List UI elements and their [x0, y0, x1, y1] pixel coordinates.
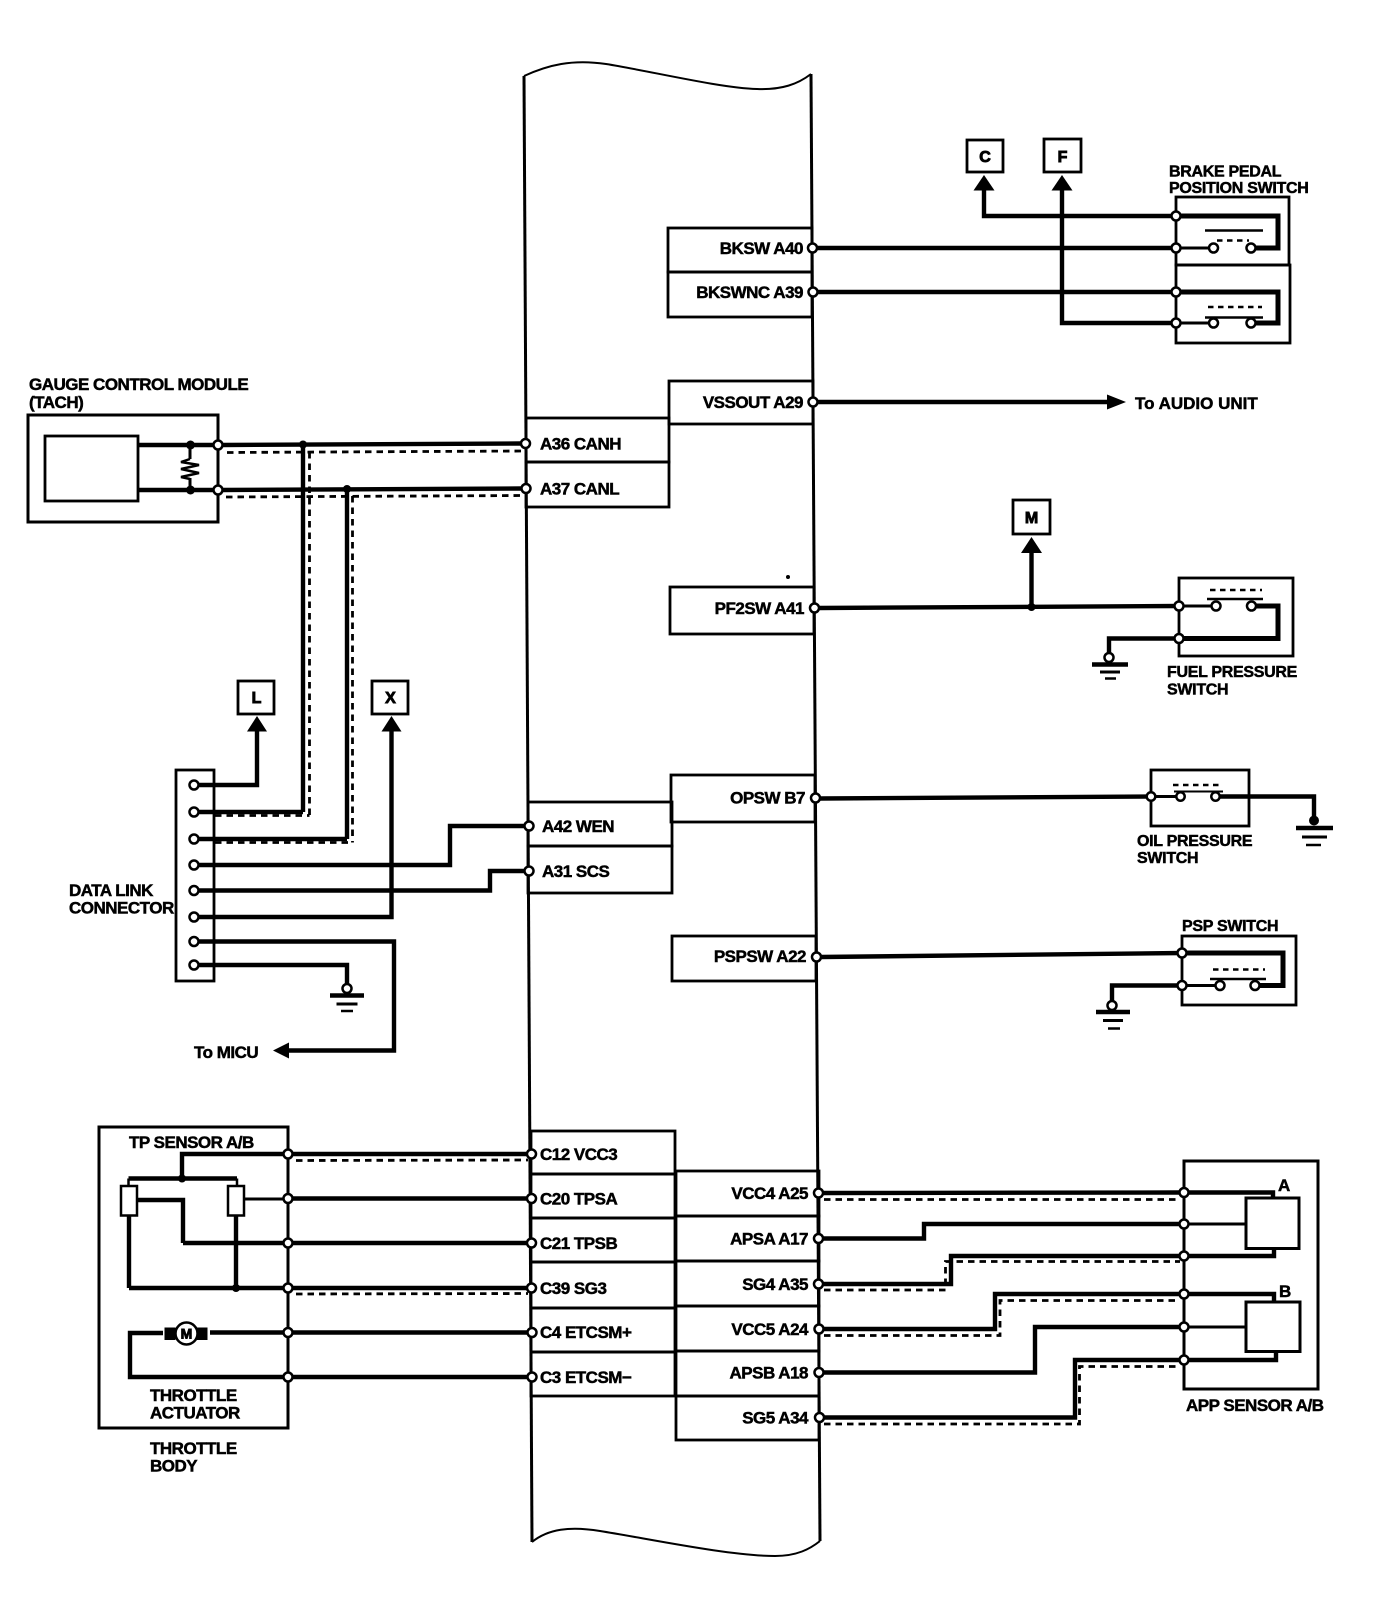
svg-text:BRAKE PEDAL: BRAKE PEDAL: [1169, 164, 1282, 181]
svg-text:DATA LINK: DATA LINK: [69, 881, 154, 900]
svg-text:PF2SW A41: PF2SW A41: [715, 599, 804, 618]
svg-text:SG4 A35: SG4 A35: [742, 1275, 808, 1294]
svg-text:C20 TPSA: C20 TPSA: [540, 1190, 617, 1209]
svg-text:APP SENSOR A/B: APP SENSOR A/B: [1186, 1396, 1324, 1415]
svg-text:VCC5 A24: VCC5 A24: [731, 1320, 809, 1339]
svg-text:L: L: [252, 690, 262, 707]
svg-text:BKSWNC A39: BKSWNC A39: [696, 283, 803, 302]
svg-text:C4 ETCSM+: C4 ETCSM+: [540, 1323, 632, 1342]
svg-text:POSITION SWITCH: POSITION SWITCH: [1169, 180, 1309, 197]
svg-text:(TACH): (TACH): [29, 393, 83, 412]
svg-text:VSSOUT A29: VSSOUT A29: [703, 393, 803, 412]
svg-text:SWITCH: SWITCH: [1137, 850, 1198, 867]
svg-text:X: X: [385, 690, 396, 707]
svg-text:BODY: BODY: [150, 1457, 198, 1476]
svg-text:VCC4 A25: VCC4 A25: [731, 1184, 808, 1203]
svg-text:GAUGE CONTROL MODULE: GAUGE CONTROL MODULE: [29, 375, 248, 394]
svg-text:THROTTLE: THROTTLE: [150, 1439, 237, 1458]
svg-text:C21 TPSB: C21 TPSB: [540, 1234, 617, 1253]
svg-text:A42 WEN: A42 WEN: [542, 817, 614, 836]
svg-text:M: M: [1025, 510, 1038, 527]
svg-text:B: B: [1279, 1282, 1291, 1301]
svg-text:SWITCH: SWITCH: [1167, 682, 1228, 699]
svg-text:FUEL PRESSURE: FUEL PRESSURE: [1167, 664, 1298, 681]
svg-text:C12 VCC3: C12 VCC3: [540, 1145, 617, 1164]
svg-text:M: M: [181, 1326, 193, 1342]
svg-text:SG5 A34: SG5 A34: [742, 1409, 809, 1428]
svg-text:A: A: [1278, 1176, 1290, 1195]
svg-text:CONNECTOR: CONNECTOR: [69, 899, 174, 918]
svg-text:APSA A17: APSA A17: [730, 1230, 808, 1249]
svg-text:F: F: [1058, 149, 1068, 166]
svg-text:To AUDIO UNIT: To AUDIO UNIT: [1135, 394, 1258, 413]
svg-text:C: C: [979, 149, 991, 166]
svg-text:To MICU: To MICU: [194, 1043, 258, 1062]
svg-text:C39 SG3: C39 SG3: [540, 1279, 606, 1298]
svg-text:TP SENSOR A/B: TP SENSOR A/B: [129, 1133, 254, 1152]
svg-text:A36 CANH: A36 CANH: [540, 435, 621, 454]
svg-text:THROTTLE: THROTTLE: [150, 1386, 237, 1405]
svg-text:OPSW B7: OPSW B7: [730, 789, 805, 808]
svg-text:ACTUATOR: ACTUATOR: [150, 1404, 240, 1423]
svg-text:BKSW A40: BKSW A40: [720, 239, 803, 258]
svg-text:A37 CANL: A37 CANL: [540, 480, 619, 499]
svg-text:PSPSW A22: PSPSW A22: [714, 947, 806, 966]
svg-text:OIL PRESSURE: OIL PRESSURE: [1137, 833, 1253, 850]
svg-text:C3 ETCSM−: C3 ETCSM−: [540, 1368, 632, 1387]
svg-text:PSP SWITCH: PSP SWITCH: [1182, 918, 1278, 935]
svg-text:A31 SCS: A31 SCS: [542, 862, 610, 881]
svg-text:APSB A18: APSB A18: [729, 1364, 808, 1383]
